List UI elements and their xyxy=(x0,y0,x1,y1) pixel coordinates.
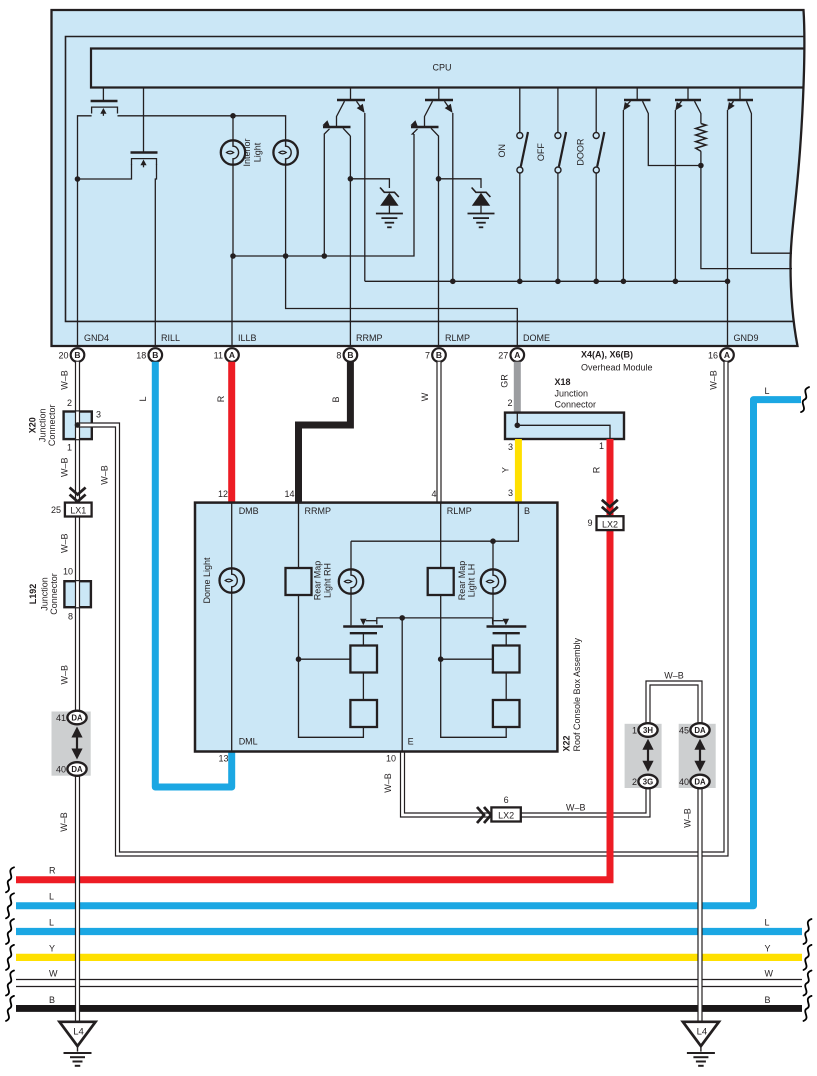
bus wire B black xyxy=(16,1005,802,1012)
wire W-B GND9 to X20 pin 3 xyxy=(79,362,726,854)
wire Q2 source to GND4 node xyxy=(78,165,132,180)
svg-text:40: 40 xyxy=(56,765,66,775)
svg-text:W: W xyxy=(420,392,430,401)
wire W-B GND4 chain to ground xyxy=(76,362,79,1022)
ground symbol D2 xyxy=(468,213,495,215)
curl top right L xyxy=(801,387,809,412)
svg-text:20: 20 xyxy=(58,351,68,361)
bus break curls right xyxy=(804,919,812,944)
arrows DA 41-40 xyxy=(76,731,78,756)
svg-text:L: L xyxy=(765,917,770,927)
dome light bulb xyxy=(231,503,233,569)
svg-text:1: 1 xyxy=(632,726,637,736)
switch OFF xyxy=(557,88,559,133)
wire R red X18 pin 1 to LX2 9 to R bus xyxy=(16,439,610,880)
node RLMP branch xyxy=(438,656,444,662)
transistor Q7 xyxy=(624,99,651,101)
pin 18 B RILL xyxy=(149,348,163,362)
svg-text:DA: DA xyxy=(71,713,83,722)
svg-text:W–B: W–B xyxy=(59,812,69,832)
overhead module body X4/X6 xyxy=(52,10,805,346)
node resistor bottom xyxy=(698,163,704,169)
wire W-B LX2 6 to 3G xyxy=(520,787,648,815)
svg-text:DOME: DOME xyxy=(523,333,550,343)
svg-text:25: 25 xyxy=(51,505,61,515)
svg-text:Y: Y xyxy=(49,943,55,953)
relay box RRMP 3 xyxy=(350,700,377,727)
pin 11 A ILLB xyxy=(225,348,239,362)
svg-text:LX2: LX2 xyxy=(498,811,514,821)
svg-text:B: B xyxy=(347,350,353,360)
svg-text:Rear Map: Rear Map xyxy=(457,561,467,601)
connector pin 40 DA right xyxy=(690,775,709,789)
arrows 45-40 DA xyxy=(699,743,701,768)
svg-text:1: 1 xyxy=(67,443,72,453)
svg-text:A: A xyxy=(514,350,520,360)
connector pin 40 DA xyxy=(67,762,86,776)
svg-text:B: B xyxy=(436,350,442,360)
svg-text:Light RH: Light RH xyxy=(323,563,333,598)
svg-text:Connector: Connector xyxy=(555,400,597,410)
node RRMP branch xyxy=(296,656,302,662)
svg-text:E: E xyxy=(408,737,414,747)
ground L4 right xyxy=(683,1022,719,1046)
rear map light LH bulb xyxy=(481,569,505,593)
node DOOR on rail xyxy=(593,279,599,285)
svg-text:W–B: W–B xyxy=(566,803,586,813)
svg-text:B: B xyxy=(331,396,341,402)
svg-text:1: 1 xyxy=(599,441,604,451)
wire CPU to transistor Q7 xyxy=(636,88,638,101)
svg-text:R: R xyxy=(592,466,602,473)
svg-text:DA: DA xyxy=(694,726,706,735)
svg-text:16: 16 xyxy=(708,351,718,361)
svg-text:OFF: OFF xyxy=(536,143,546,161)
svg-text:LX1: LX1 xyxy=(70,506,86,516)
svg-text:7: 7 xyxy=(425,351,430,361)
svg-text:W–B: W–B xyxy=(60,370,70,390)
wire Q4 collector to RRMP pin xyxy=(349,136,351,347)
svg-text:Connector: Connector xyxy=(47,405,57,447)
node bulb left bottom xyxy=(230,253,236,259)
wire Q1 drain to interior lights xyxy=(118,116,286,141)
svg-text:L: L xyxy=(765,386,770,396)
node Q7 on rail xyxy=(621,279,627,285)
svg-text:Light: Light xyxy=(253,142,263,162)
wire B black RRMP to console 14 xyxy=(299,362,351,503)
chevron above LX1 xyxy=(70,488,86,495)
svg-text:Junction: Junction xyxy=(555,389,589,399)
node X18 internal xyxy=(515,423,521,429)
svg-text:L4: L4 xyxy=(697,1026,708,1037)
svg-text:B: B xyxy=(765,995,771,1005)
svg-text:DMB: DMB xyxy=(239,506,259,516)
wire GR gray DOME to X18 xyxy=(514,362,521,413)
diode box RLMP xyxy=(428,568,454,595)
pin 16 A GND9 xyxy=(720,348,734,362)
svg-text:R: R xyxy=(216,395,226,402)
wire RLMP inside console xyxy=(440,503,442,568)
wire Q2 drain to RILL pin xyxy=(155,165,156,348)
svg-text:18: 18 xyxy=(136,351,146,361)
node Q4 emitter tap xyxy=(322,253,328,259)
wire B net inside console xyxy=(351,503,518,542)
svg-text:L: L xyxy=(138,396,148,401)
svg-text:DA: DA xyxy=(71,765,83,774)
wire E to console bottom xyxy=(401,618,403,752)
svg-text:A: A xyxy=(724,350,730,360)
chevron LX2 9 xyxy=(602,500,618,507)
svg-text:10: 10 xyxy=(386,754,396,764)
wire CPU to MOSFET Q2 xyxy=(143,88,145,153)
MOSFET Q1 xyxy=(91,100,118,102)
wire bulb left top lead xyxy=(232,116,234,141)
interior light bulb right xyxy=(273,140,297,164)
svg-text:RLMP: RLMP xyxy=(447,506,472,516)
zener diode D1 xyxy=(380,188,399,198)
transistor Q6 lower xyxy=(411,126,439,128)
svg-text:40: 40 xyxy=(679,777,689,787)
connector DA 41-40 gray box xyxy=(52,712,91,776)
relay box RLMP 3 xyxy=(493,700,520,727)
svg-text:X20: X20 xyxy=(28,417,38,433)
svg-text:9: 9 xyxy=(587,518,592,528)
svg-text:DA: DA xyxy=(694,777,706,786)
node ON on rail xyxy=(517,279,523,285)
svg-text:3G: 3G xyxy=(643,777,653,786)
svg-text:RILL: RILL xyxy=(161,333,180,343)
svg-text:W–B: W–B xyxy=(100,465,110,485)
chevron LX2 6 xyxy=(477,807,484,823)
svg-text:B: B xyxy=(152,350,158,360)
junction connector L192 xyxy=(64,581,91,607)
node zener D2 tap xyxy=(436,176,442,182)
node OFF on rail xyxy=(555,279,561,285)
wire line A ILLB net xyxy=(233,134,414,256)
transistor Q4 lower xyxy=(323,126,351,128)
MOSFET Q10 console left xyxy=(343,625,383,627)
svg-text:ON: ON xyxy=(497,144,507,158)
pin 20 B GND4 xyxy=(71,348,85,362)
connector pin 2 3G xyxy=(638,775,657,789)
connector LX2 6 xyxy=(491,807,520,821)
wire Q6 collector to RLMP pin xyxy=(431,128,439,347)
wire bulb right bottom lead to DOME pin xyxy=(286,165,518,347)
svg-text:Junction: Junction xyxy=(39,577,49,611)
svg-text:L192: L192 xyxy=(28,584,38,605)
svg-text:L4: L4 xyxy=(73,1026,84,1037)
wire W white RLMP to console 4 xyxy=(437,362,440,503)
wire RRMP inside console xyxy=(298,503,300,568)
wire ground rail in module xyxy=(365,280,728,282)
svg-text:GND4: GND4 xyxy=(84,333,109,343)
svg-text:W–B: W–B xyxy=(60,665,70,685)
resistor R1 xyxy=(696,124,706,152)
node GND4 junction xyxy=(75,176,81,182)
svg-text:GR: GR xyxy=(500,374,510,388)
wire GND9 pin lead xyxy=(727,281,729,347)
svg-text:Dome Light: Dome Light xyxy=(202,557,212,604)
node Q8 on rail xyxy=(673,279,679,285)
svg-text:X18: X18 xyxy=(555,377,571,387)
wire resistor node exit right xyxy=(701,166,792,269)
svg-text:R: R xyxy=(49,866,56,876)
wire rear map LH bulb feed xyxy=(492,541,494,569)
svg-text:B: B xyxy=(524,506,530,516)
wire Q5 emitter down to ground rail xyxy=(452,113,454,281)
svg-text:3H: 3H xyxy=(643,726,653,735)
relay box RLMP 2 xyxy=(493,646,520,673)
node GND9 on rail xyxy=(725,279,731,285)
svg-text:W: W xyxy=(49,969,58,979)
connector LX1 25 xyxy=(65,503,92,517)
bus wire Y yellow xyxy=(16,954,802,961)
svg-text:X22: X22 xyxy=(562,735,572,751)
CPU block U1 xyxy=(91,49,805,88)
svg-text:X4(A), X6(B): X4(A), X6(B) xyxy=(581,350,633,360)
svg-text:B: B xyxy=(74,350,80,360)
svg-text:14: 14 xyxy=(284,489,294,499)
pin 27 A DOME xyxy=(511,348,525,362)
svg-text:3: 3 xyxy=(508,488,513,498)
wire CPU to transistor Q9 xyxy=(739,88,741,101)
wire rear map RH bulb feed xyxy=(350,541,352,569)
ground L4 left xyxy=(60,1022,96,1046)
svg-text:GND9: GND9 xyxy=(734,333,759,343)
svg-text:3: 3 xyxy=(508,442,513,452)
svg-text:W: W xyxy=(765,969,774,979)
node ILLB top junction xyxy=(230,113,236,119)
pin 7 B RLMP xyxy=(432,348,446,362)
connector LX2 9 xyxy=(597,516,624,530)
connector pin 1 3H xyxy=(638,723,657,737)
svg-text:L: L xyxy=(49,892,54,902)
svg-text:Interior: Interior xyxy=(242,138,252,166)
wire RRMP 3 return loop xyxy=(299,659,364,737)
node bulb right bottom xyxy=(283,253,289,259)
roof console box assembly X22 xyxy=(195,503,557,752)
svg-text:ILLB: ILLB xyxy=(238,333,257,343)
wire CPU to transistor Q3 xyxy=(350,88,352,101)
svg-text:2: 2 xyxy=(507,398,512,408)
svg-text:CPU: CPU xyxy=(432,63,451,73)
ground symbol D1 xyxy=(376,213,403,215)
diode box RRMP xyxy=(286,568,312,595)
svg-text:27: 27 xyxy=(498,351,508,361)
wire L blue top right to L bus 1 xyxy=(16,400,801,906)
svg-text:RRMP: RRMP xyxy=(356,333,383,343)
svg-text:Light LH: Light LH xyxy=(467,564,477,598)
wire to zener D2 xyxy=(439,179,482,188)
wire RLMP 3 return loop xyxy=(441,659,507,737)
svg-text:Rear Map: Rear Map xyxy=(313,561,323,601)
svg-text:W–B: W–B xyxy=(60,458,70,478)
bus wire L blue 2 xyxy=(16,928,802,935)
switch DOOR xyxy=(595,88,597,133)
node X20 internal xyxy=(75,422,81,428)
transistor Q9 xyxy=(728,99,754,101)
svg-text:L: L xyxy=(49,917,54,927)
svg-text:A: A xyxy=(229,350,235,360)
svg-text:11: 11 xyxy=(214,351,223,361)
transistor Q5 upper xyxy=(425,99,453,101)
arrows 3H-3G xyxy=(647,743,649,768)
wire W-B 3H to 45DA loop xyxy=(648,683,700,724)
wire R red ILLB to console DMB xyxy=(228,362,235,503)
svg-text:41: 41 xyxy=(56,713,66,723)
relay box RRMP 2 xyxy=(350,646,377,673)
connector 3H-3G gray box xyxy=(625,724,662,788)
svg-text:Y: Y xyxy=(501,467,511,473)
wire W-B console E to LX2 6 xyxy=(403,752,495,816)
svg-text:DOOR: DOOR xyxy=(575,138,585,166)
connector pin 45 DA xyxy=(690,723,709,737)
svg-text:DML: DML xyxy=(239,737,258,747)
svg-text:2: 2 xyxy=(67,398,72,408)
svg-text:4: 4 xyxy=(431,489,436,499)
wire L blue RILL to console DML xyxy=(155,362,231,787)
svg-text:RLMP: RLMP xyxy=(445,333,470,343)
wire CPU to transistor Q5 xyxy=(438,88,440,101)
MOSFET Q2 xyxy=(131,151,158,153)
wire Q3 emitter down to ground rail xyxy=(364,113,366,281)
zener diode D2 xyxy=(472,188,491,198)
svg-text:W–B: W–B xyxy=(683,808,693,828)
node E gate junction xyxy=(399,615,405,621)
svg-text:8: 8 xyxy=(68,612,73,622)
svg-text:W–B: W–B xyxy=(664,671,684,681)
svg-text:2: 2 xyxy=(632,777,637,787)
svg-text:3: 3 xyxy=(96,410,101,420)
junction connector X20 xyxy=(64,412,92,440)
module outer border with torn edge xyxy=(52,10,805,346)
svg-text:Junction: Junction xyxy=(37,409,47,443)
svg-text:Y: Y xyxy=(765,943,771,953)
transistor Q3 upper xyxy=(337,99,365,101)
svg-text:Connector: Connector xyxy=(49,573,59,615)
svg-text:6: 6 xyxy=(504,795,509,805)
wire Q1 source to GND4 node xyxy=(78,116,92,347)
svg-text:13: 13 xyxy=(218,754,228,764)
MOSFET Q11 console right xyxy=(487,625,527,627)
wire ILLB pin lead xyxy=(231,256,233,347)
svg-text:12: 12 xyxy=(218,489,228,499)
svg-text:45: 45 xyxy=(679,726,689,736)
connector 45-40 DA gray box xyxy=(679,724,716,788)
connector pin 41 DA xyxy=(67,711,86,725)
svg-text:10: 10 xyxy=(63,567,73,577)
bus wire W white xyxy=(16,981,802,986)
svg-text:W–B: W–B xyxy=(709,370,719,390)
bus break curls left xyxy=(6,867,14,892)
switch ON xyxy=(519,88,521,133)
module inner border xyxy=(66,37,805,322)
svg-text:Roof Console Box Assembly: Roof Console Box Assembly xyxy=(572,637,582,751)
wire to zener D1 xyxy=(350,179,389,188)
node Q5 emitter on rail xyxy=(450,279,456,285)
wire CPU to transistor Q8 xyxy=(687,88,689,101)
svg-text:8: 8 xyxy=(336,351,341,361)
transistor Q8 xyxy=(675,99,701,101)
node zener D1 tap xyxy=(348,176,354,182)
svg-text:W–B: W–B xyxy=(383,773,393,793)
svg-text:RRMP: RRMP xyxy=(305,506,332,516)
svg-text:W–B: W–B xyxy=(60,534,70,554)
pin 8 B RRMP xyxy=(344,348,358,362)
wire Y yellow X18 pin 3 to console B xyxy=(515,439,522,503)
node B net LH tap xyxy=(490,538,496,544)
svg-text:B: B xyxy=(49,995,55,1005)
wire CPU to MOSFET Q1 xyxy=(102,88,104,101)
svg-text:LX2: LX2 xyxy=(602,519,618,529)
junction connector X18 xyxy=(505,413,624,439)
svg-text:Overhead Module: Overhead Module xyxy=(581,363,653,373)
wire W-B 40DA to ground right xyxy=(698,787,701,1022)
rear map light RH bulb xyxy=(339,569,363,593)
wire bulb left bottom lead xyxy=(232,165,234,256)
interior light bulb left xyxy=(221,140,245,164)
